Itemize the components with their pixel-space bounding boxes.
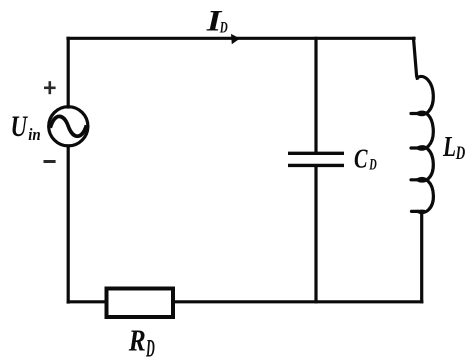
wire top horizontal	[68, 37, 414, 40]
svg-text:in: in	[28, 125, 41, 144]
capacitor C_D	[288, 153, 344, 165]
label I_D	[206, 4, 229, 37]
svg-text:R: R	[128, 322, 146, 357]
svg-text:L: L	[442, 131, 456, 163]
svg-text:U: U	[11, 110, 29, 143]
wire left vertical upper	[67, 38, 70, 107]
plus polarity mark	[44, 81, 56, 94]
inductor L_D	[411, 76, 433, 212]
wire capacitor branch lower	[314, 167, 317, 302]
wire bottom horizontal	[68, 300, 422, 303]
svg-text:D: D	[146, 336, 155, 363]
label U_in	[11, 110, 41, 144]
svg-text:D: D	[369, 157, 377, 174]
svg-text:D: D	[455, 143, 465, 164]
resistor R_D	[107, 289, 174, 318]
wire right vertical lower	[420, 211, 423, 301]
wire capacitor branch upper	[314, 38, 317, 151]
label R_D	[128, 322, 155, 362]
label L_D	[442, 131, 465, 164]
label C_D	[354, 143, 377, 173]
current arrow I_D	[231, 34, 240, 44]
svg-text:D: D	[219, 20, 228, 37]
minus polarity mark	[44, 160, 56, 163]
svg-text:C: C	[354, 143, 368, 173]
AC source U_in	[49, 107, 88, 146]
wire right vertical upper	[414, 38, 418, 78]
wire left vertical lower	[67, 146, 70, 302]
